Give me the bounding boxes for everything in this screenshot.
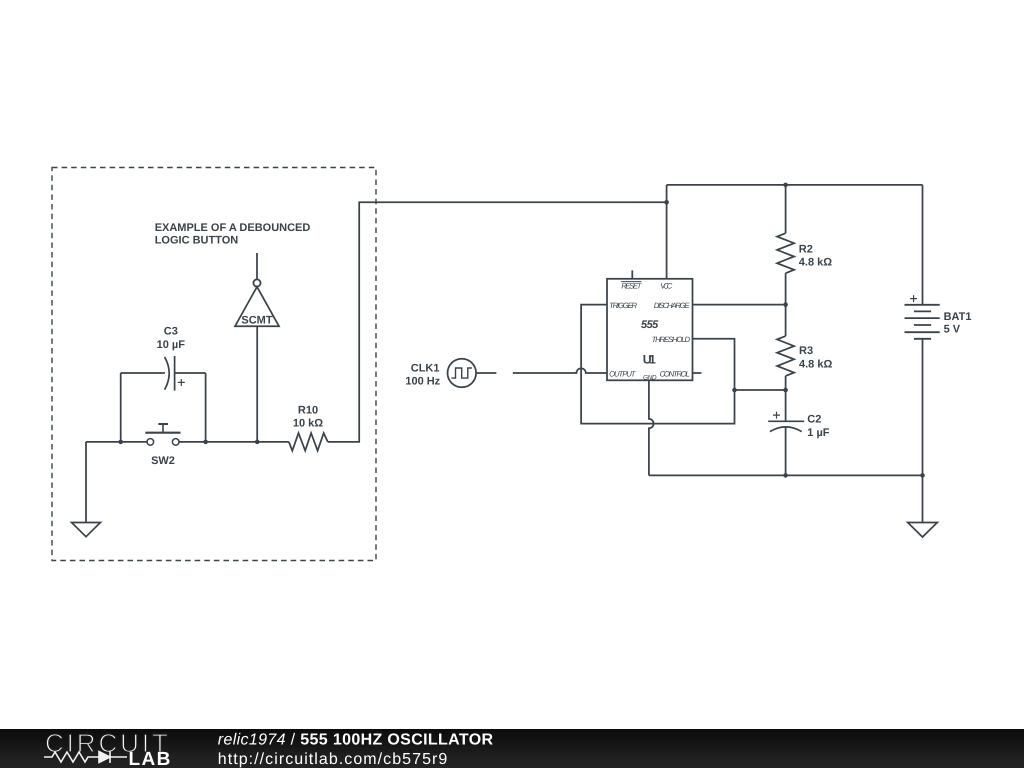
pin CONTROL stub	[693, 372, 702, 374]
svg-text:CONTROL: CONTROL	[660, 370, 690, 379]
svg-text:10 kΩ: 10 kΩ	[293, 418, 323, 430]
ground (left)	[72, 442, 101, 537]
svg-text:C2: C2	[807, 414, 821, 426]
node junction SCMT input	[255, 440, 260, 445]
node junction C3 right	[203, 440, 208, 445]
wire gnd to SW2	[86, 441, 147, 443]
wire THRESHOLD branch	[735, 389, 786, 391]
svg-text:THRESHOLD: THRESHOLD	[652, 335, 691, 344]
pin RESET stub	[631, 270, 633, 278]
wire VCC to top rail	[666, 185, 668, 279]
svg-text:C3: C3	[164, 326, 178, 338]
node junction top rail R2	[783, 183, 788, 188]
wire bottom rail	[649, 474, 923, 476]
svg-text:SCMT: SCMT	[241, 314, 272, 326]
svg-text:RESET: RESET	[621, 281, 642, 290]
wire to OUTPUT with hop	[513, 368, 607, 373]
capacitor C3	[121, 326, 206, 391]
wire GND down with hop	[649, 380, 654, 475]
node junction R3 bottom	[783, 388, 788, 393]
node junction VCC	[664, 200, 669, 205]
wire top rail	[667, 184, 923, 186]
footer title text	[218, 732, 494, 768]
node junction C2 bottom	[783, 473, 788, 478]
wire SCMT input	[256, 326, 258, 442]
svg-text:4.8 kΩ: 4.8 kΩ	[799, 257, 832, 269]
wire C3 right leg	[205, 373, 207, 442]
svg-text:TRIGGER: TRIGGER	[609, 301, 637, 310]
svg-text:4.8 kΩ: 4.8 kΩ	[799, 358, 832, 370]
switch SW2	[145, 424, 180, 467]
svg-text:CLK1: CLK1	[411, 363, 440, 375]
dashed subcircuit box	[52, 168, 376, 561]
svg-text:OUTPUT: OUTPUT	[609, 370, 637, 379]
wire C3 left leg	[120, 373, 122, 442]
footer bar	[0, 729, 1024, 768]
ground (right)	[908, 475, 938, 537]
wire SCMT output stub	[256, 253, 258, 279]
svg-text:DISCHARGE: DISCHARGE	[654, 301, 691, 310]
svg-text:SW2: SW2	[151, 455, 175, 467]
voltage source CLK1 100 Hz	[405, 359, 476, 388]
node junction battery bottom	[920, 473, 925, 478]
svg-text:R10: R10	[298, 404, 318, 416]
IC U1 555 timer	[607, 279, 693, 382]
resistor R10 10 kΩ	[289, 404, 328, 450]
capacitor C2 1 µF	[768, 390, 830, 475]
svg-text:GND: GND	[643, 374, 657, 381]
inverter SCMT	[235, 279, 279, 326]
wire TRIGGER feedback	[581, 305, 734, 424]
battery BAT1 5 V	[905, 185, 972, 476]
caption EXAMPLE OF A DEBOUNCED LOGIC BUTTON	[155, 222, 311, 247]
svg-text:555: 555	[641, 319, 659, 331]
resistor R3 4.8 kΩ	[777, 305, 832, 390]
svg-text:U1: U1	[643, 353, 656, 367]
svg-text:R3: R3	[799, 345, 813, 357]
svg-text:VCC: VCC	[660, 281, 672, 290]
node junction THRESHOLD	[732, 388, 737, 393]
svg-text:LOGIC BUTTON: LOGIC BUTTON	[155, 235, 239, 247]
node junction C3 left	[118, 440, 123, 445]
wire DISCHARGE	[693, 304, 786, 306]
CircuitLab logo	[44, 728, 172, 768]
wire R10 to top rail	[328, 202, 667, 442]
svg-text:1 µF: 1 µF	[807, 427, 830, 439]
svg-text:100 Hz: 100 Hz	[405, 375, 440, 387]
node junction DISCHARGE	[783, 302, 788, 307]
wire SW2 to R10	[179, 441, 289, 443]
resistor R2 4.8 kΩ	[777, 185, 832, 305]
svg-text:10 µF: 10 µF	[157, 339, 186, 351]
wire CLK1 stub	[476, 372, 496, 374]
svg-text:BAT1: BAT1	[944, 311, 972, 323]
svg-text:5 V: 5 V	[944, 324, 961, 336]
svg-text:EXAMPLE OF A DEBOUNCED: EXAMPLE OF A DEBOUNCED	[155, 222, 311, 234]
svg-text:R2: R2	[799, 243, 813, 255]
